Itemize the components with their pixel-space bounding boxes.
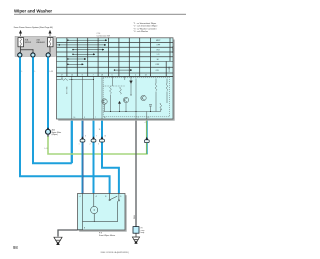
noise filter label <box>52 129 62 137</box>
relay box (combination switch + wiper relay) <box>57 38 175 121</box>
legend top right <box>134 22 158 33</box>
connector circle 2 <box>31 52 35 57</box>
resistor vertical right A <box>155 84 157 91</box>
svg-text:18: 18 <box>104 117 106 119</box>
resistor vertical 2 <box>120 87 122 94</box>
svg-text:L: L <box>35 71 36 73</box>
ground right <box>132 233 139 243</box>
svg-text:17: 17 <box>61 75 63 77</box>
connector circle 3 <box>46 52 50 57</box>
relay pin numbers at bottom edge <box>74 117 150 119</box>
svg-text:+2: +2 <box>95 196 97 198</box>
svg-text:16: 16 <box>71 75 73 77</box>
arrow up to power source (right) <box>49 31 51 37</box>
dotted link <box>104 85 125 87</box>
motor label <box>99 233 115 237</box>
terminal numbers <box>61 75 147 77</box>
resistor vertical right B <box>166 84 168 91</box>
transistor 2 <box>123 97 128 102</box>
svg-text:E: E <box>84 228 85 230</box>
switch table grid <box>57 38 174 77</box>
connector on W5 <box>91 136 96 142</box>
wire color labels <box>22 71 54 150</box>
switch contact arrows <box>57 40 133 71</box>
svg-text:From Power Source System (Star: From Power Source System (Start Page 44) <box>14 26 53 29</box>
svg-text:Combination SW: Combination SW <box>97 34 111 37</box>
svg-text:5: 5 <box>135 75 136 77</box>
svg-text:18: 18 <box>101 75 103 77</box>
terminal drops <box>61 76 63 79</box>
connector on W4 <box>80 136 85 142</box>
svg-text:body: body <box>141 232 145 234</box>
svg-text:13: 13 <box>148 117 150 119</box>
connector circle 1 <box>18 52 22 57</box>
svg-text:WIPER: WIPER <box>25 42 32 44</box>
svg-text:(Wiper): (Wiper) <box>52 133 59 136</box>
svg-text:18: 18 <box>99 129 101 131</box>
svg-text:*4 : w/o Washer: *4 : w/o Washer <box>134 30 149 33</box>
wire W3g green noise filter to relay <box>48 136 148 154</box>
fuse F1 WIPER <box>18 38 24 47</box>
resistor vertical 1 <box>110 87 112 94</box>
transistor 3 <box>141 95 146 100</box>
ground left <box>54 237 62 244</box>
svg-text:8: 8 <box>82 75 83 77</box>
wire W2 blue fuse1b to relay <box>33 57 72 163</box>
switch position labels <box>155 40 161 72</box>
wire W3 washer fuse to noise filter <box>47 57 49 129</box>
wire W7 gray relay to ground right <box>135 119 137 227</box>
svg-text:W-B: W-B <box>134 214 136 219</box>
svg-text:18: 18 <box>105 135 107 137</box>
connector on teal wire <box>144 137 149 143</box>
combination switch label <box>97 33 111 38</box>
junction dots <box>71 79 151 112</box>
wire W8 gray motor to ground left <box>58 230 78 237</box>
internal bottom rail <box>104 111 161 113</box>
svg-text:L: L <box>22 71 23 73</box>
connector block IH <box>133 227 139 234</box>
fuse F1 label <box>25 39 32 45</box>
svg-text:F WIPER: F WIPER <box>171 46 173 54</box>
transistor 1 <box>102 99 107 104</box>
svg-text:*1 : w/ Intermittent Wiper: *1 : w/ Intermittent Wiper <box>134 22 157 25</box>
svg-text:7: 7 <box>93 75 94 77</box>
svg-text:WASHER: WASHER <box>36 41 45 44</box>
capacitor <box>149 105 152 107</box>
noise filter A25 <box>46 127 51 136</box>
motor box <box>78 194 127 232</box>
wire W6 blue relay to motor S <box>102 119 119 194</box>
arrow up to power source (left) <box>19 31 21 37</box>
svg-text:+1: +1 <box>79 196 81 198</box>
resistor vertical right C <box>160 103 162 110</box>
fuse internal wiring <box>21 47 51 53</box>
relay internal circuit <box>57 76 168 119</box>
svg-text:13: 13 <box>145 75 147 77</box>
wire W2b thick riser into relay <box>71 119 73 163</box>
svg-text:Wiper and Washer: Wiper and Washer <box>14 9 52 14</box>
svg-text:98: 98 <box>13 245 18 250</box>
diode down at 131 <box>130 80 133 84</box>
diode up at 119.5 <box>118 101 120 103</box>
IC dashed box <box>103 77 169 116</box>
wire W5 blue relay to motor +2 <box>93 119 95 194</box>
svg-text:6: 6 <box>112 75 113 77</box>
svg-text:B: B <box>105 196 106 198</box>
svg-text:Front Wiper Motor: Front Wiper Motor <box>99 234 115 237</box>
title rule <box>14 13 186 15</box>
motor internals <box>78 194 120 230</box>
svg-text:2004 COROLLA (EWD533U): 2004 COROLLA (EWD533U) <box>101 251 129 254</box>
svg-text:S: S <box>120 196 121 198</box>
wire W3t two-tone green/teal riser to relay <box>145 119 147 154</box>
wire W4 two-tone blue/navy relay to motor +1 <box>81 119 83 194</box>
fuse F2 label <box>36 39 45 45</box>
left resistor feed <box>57 79 62 81</box>
svg-text:WASH: WASH <box>168 67 171 73</box>
svg-text:*2 : w/o Intermittent Wiper: *2 : w/o Intermittent Wiper <box>134 25 158 28</box>
svg-text:*3 : w/ Washer Controller: *3 : w/ Washer Controller <box>134 27 157 30</box>
svg-text:INT TIME: INT TIME <box>67 86 69 94</box>
fuse F2 WASHER <box>48 38 54 47</box>
svg-text:4: 4 <box>145 122 146 124</box>
connector on W6 <box>100 136 105 142</box>
svg-text:16: 16 <box>74 117 76 119</box>
wire W1 blue fuse1 to wiper motor <box>20 57 110 193</box>
fuse block (gray box) <box>15 36 56 56</box>
svg-text:L-W: L-W <box>50 71 54 73</box>
